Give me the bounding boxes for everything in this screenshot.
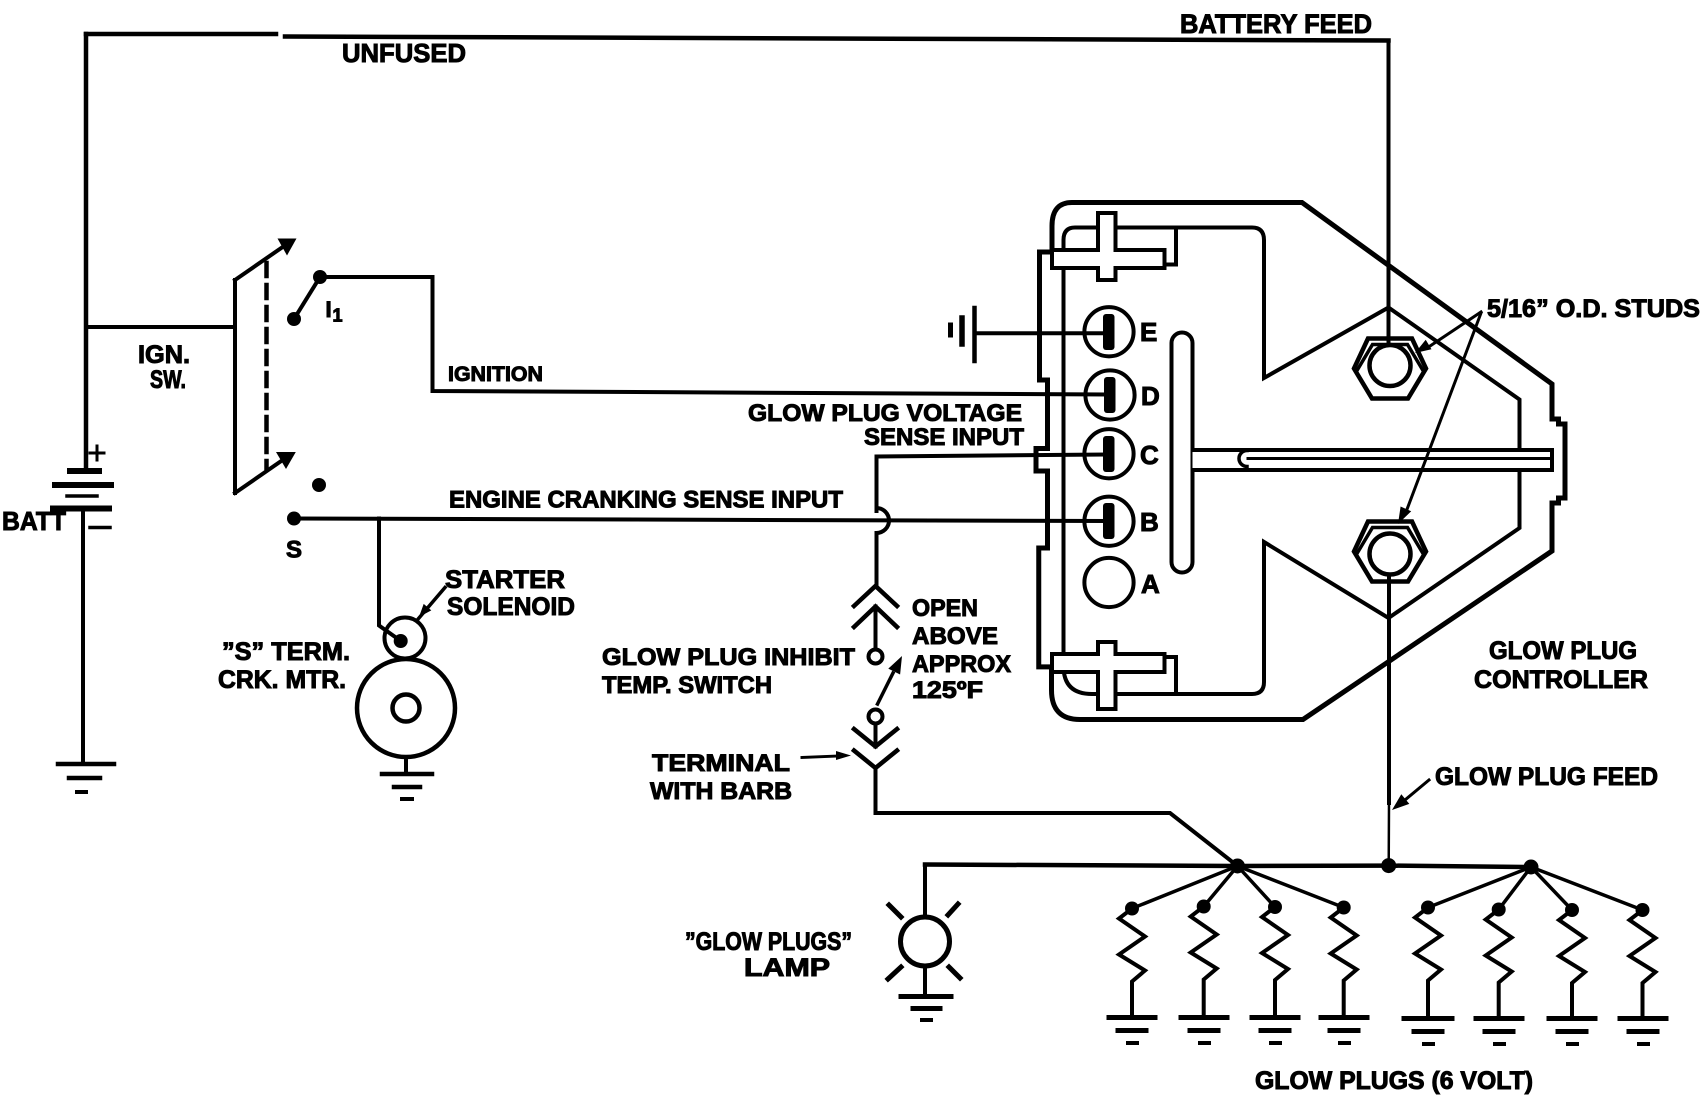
- wire glow plug voltage sense from pin C: [877, 455, 1107, 512]
- label IGN. SW.: [138, 341, 190, 394]
- svg-text:D: D: [1141, 381, 1160, 411]
- pin E bar: [1103, 314, 1115, 350]
- wire battery feed vertical drop to upper stud: [1387, 41, 1391, 346]
- svg-text:IGN.: IGN.: [138, 341, 190, 369]
- svg-text:SOLENOID: SOLENOID: [447, 593, 575, 621]
- svg-text:GLOW PLUG VOLTAGE: GLOW PLUG VOLTAGE: [748, 400, 1022, 427]
- starter solenoid terminal dot: [394, 634, 408, 648]
- svg-text:ABOVE: ABOVE: [912, 623, 998, 650]
- connector key cross bottom: [1052, 642, 1165, 709]
- pin D circle: [1085, 370, 1134, 419]
- svg-text:”S” TERM.: ”S” TERM.: [222, 638, 350, 666]
- node bus junction 3: [1524, 860, 1539, 875]
- svg-text:”GLOW PLUGS”: ”GLOW PLUGS”: [685, 928, 852, 956]
- battery minus sign: [90, 526, 110, 530]
- wire battery to ignition switch: [86, 325, 233, 329]
- svg-text:SENSE INPUT: SENSE INPUT: [864, 424, 1024, 451]
- wire cranking motor to ground: [404, 757, 408, 772]
- svg-text:GLOW PLUG: GLOW PLUG: [1489, 637, 1637, 665]
- lamp rays: [888, 904, 960, 979]
- wire glow plug feed: [1387, 575, 1391, 867]
- controller outer outline: [1036, 203, 1565, 720]
- wire temp switch to glow plug bus: [876, 768, 1238, 866]
- wire hop over engine cranking wire: [877, 508, 889, 533]
- pin B circle: [1084, 497, 1133, 546]
- svg-text:WITH BARB: WITH BARB: [650, 778, 792, 805]
- wire lamp to ground: [923, 966, 927, 995]
- svg-text:A: A: [1141, 569, 1160, 599]
- svg-text:ENGINE CRANKING SENSE INPUT: ENGINE CRANKING SENSE INPUT: [449, 487, 843, 514]
- node S contact: [287, 478, 326, 526]
- svg-text:CONTROLLER: CONTROLLER: [1474, 666, 1648, 694]
- svg-text:OPEN: OPEN: [912, 595, 978, 622]
- wire unfused top right segment to battery feed corner: [285, 37, 1389, 41]
- svg-text:GLOW PLUG INHIBIT: GLOW PLUG INHIBIT: [602, 644, 855, 671]
- glow plugs lamp circle: [901, 917, 950, 966]
- glow plug resistor 4: [1321, 901, 1367, 1044]
- starter solenoid terminal circle: [385, 618, 426, 659]
- glow plug resistor 5: [1404, 901, 1452, 1045]
- svg-text:BATT: BATT: [2, 506, 66, 536]
- temp switch blade arrow: [878, 656, 903, 704]
- glow plug resistor 3: [1252, 900, 1298, 1043]
- ground battery: [58, 764, 114, 792]
- wire ignition from I1 to pin D: [320, 277, 1106, 395]
- svg-text:CRK. MTR.: CRK. MTR.: [218, 666, 346, 694]
- ground cranking motor: [382, 774, 432, 799]
- wire S terminal drop to starter solenoid: [379, 519, 398, 640]
- pin C bar: [1103, 436, 1115, 472]
- label TERMINAL WITH BARB: [650, 750, 792, 805]
- svg-text:STARTER: STARTER: [445, 566, 565, 594]
- node bus junction 1: [1230, 859, 1245, 874]
- battery plus sign: [90, 446, 104, 460]
- glow plug fan wires right: [1428, 867, 1643, 910]
- stud upper circle: [1370, 345, 1411, 386]
- central bar blade arc: [1239, 451, 1247, 467]
- pin E circle: [1084, 307, 1133, 356]
- svg-text:5/16” O.D. STUDS: 5/16” O.D. STUDS: [1487, 295, 1700, 323]
- svg-text:B: B: [1140, 507, 1159, 537]
- stud lower inner hex: [1357, 528, 1423, 554]
- label GLOW PLUG VOLTAGE SENSE INPUT: [748, 400, 1024, 451]
- connector key cross top: [1052, 213, 1165, 280]
- label I1: [326, 297, 343, 326]
- svg-text:GLOW PLUGS (6 VOLT): GLOW PLUGS (6 VOLT): [1255, 1067, 1533, 1095]
- svg-text:IGNITION: IGNITION: [448, 363, 543, 386]
- svg-text:SW.: SW.: [150, 366, 186, 394]
- stud upper inner hex: [1357, 345, 1423, 371]
- svg-text:TERMINAL: TERMINAL: [652, 750, 790, 777]
- arrow to starter solenoid: [419, 588, 446, 619]
- stud lower circle: [1370, 534, 1411, 575]
- arrow leader to lower stud: [1398, 313, 1481, 524]
- label "GLOW PLUGS" LAMP: [685, 928, 852, 982]
- svg-text:APPROX: APPROX: [912, 651, 1011, 678]
- svg-text:UNFUSED: UNFUSED: [342, 38, 466, 68]
- controller inner outline: [1064, 228, 1520, 695]
- wire battery negative vertical: [81, 511, 85, 763]
- svg-text:TEMP. SWITCH: TEMP. SWITCH: [602, 672, 772, 699]
- label GLOW PLUG INHIBIT TEMP. SWITCH: [602, 644, 855, 699]
- glow plug resistor 6: [1476, 903, 1522, 1045]
- arrow to glow plug feed: [1392, 780, 1429, 810]
- svg-text:E: E: [1140, 317, 1157, 347]
- svg-text:LAMP: LAMP: [744, 954, 830, 982]
- wire unfused top left segment: [86, 32, 276, 37]
- cranking motor inner circle: [393, 695, 420, 722]
- ground lamp: [901, 997, 951, 1021]
- wire battery positive vertical: [84, 34, 89, 468]
- wire ground to pin E: [977, 331, 1107, 335]
- label "S" TERM. CRK. MTR.: [218, 638, 350, 694]
- central bar blade line: [1248, 457, 1550, 460]
- ignition switch body: [235, 239, 297, 494]
- pin B bar: [1103, 503, 1115, 539]
- temp switch upper contact circle: [869, 650, 883, 664]
- svg-text:BATTERY FEED: BATTERY FEED: [1180, 9, 1372, 39]
- glow plug resistor 7: [1549, 903, 1595, 1044]
- arrow leader to upper stud: [1415, 312, 1481, 353]
- ground chassis at pin E: [951, 308, 975, 361]
- wire engine cranking sense input to pin B: [294, 519, 1106, 522]
- svg-text:I: I: [326, 297, 332, 322]
- svg-text:125ºF: 125ºF: [912, 677, 983, 704]
- stud upper hex: [1354, 339, 1426, 399]
- battery BATT: [53, 471, 111, 509]
- glow plug fan wires left: [1132, 866, 1344, 909]
- svg-text:S: S: [286, 537, 302, 564]
- wire down to temp switch: [875, 533, 879, 586]
- label GLOW PLUG CONTROLLER: [1474, 637, 1648, 694]
- svg-text:C: C: [1140, 440, 1159, 470]
- svg-text:1: 1: [333, 306, 343, 326]
- node I1 contact: [287, 270, 327, 326]
- node bus junction 2: [1381, 858, 1396, 873]
- connector keyway notch top: [1117, 228, 1176, 265]
- label STARTER SOLENOID: [445, 566, 575, 621]
- central slot: [1172, 333, 1193, 573]
- glow plug resistor 1: [1109, 902, 1155, 1044]
- label OPEN ABOVE APPROX 125F: [912, 595, 1011, 704]
- pin D bar: [1104, 377, 1116, 413]
- wire glow plug bus: [925, 865, 1531, 868]
- glow plug resistor 8: [1620, 903, 1666, 1044]
- svg-text:GLOW PLUG FEED: GLOW PLUG FEED: [1435, 763, 1658, 791]
- pin A circle: [1084, 558, 1133, 607]
- connector keyway notch bottom: [1117, 657, 1176, 694]
- cranking motor circle: [357, 659, 455, 757]
- wire lamp drop: [923, 865, 927, 918]
- central bar: [1193, 450, 1553, 470]
- glow plug inhibit temp switch: [854, 586, 897, 649]
- pin C circle: [1084, 429, 1133, 478]
- glow plug resistor 2: [1181, 900, 1227, 1044]
- arrow to terminal with barb: [802, 751, 851, 760]
- terminal with barb chevrons: [854, 724, 897, 769]
- temp switch lower contact circle: [869, 710, 883, 724]
- stud lower hex: [1354, 522, 1426, 582]
